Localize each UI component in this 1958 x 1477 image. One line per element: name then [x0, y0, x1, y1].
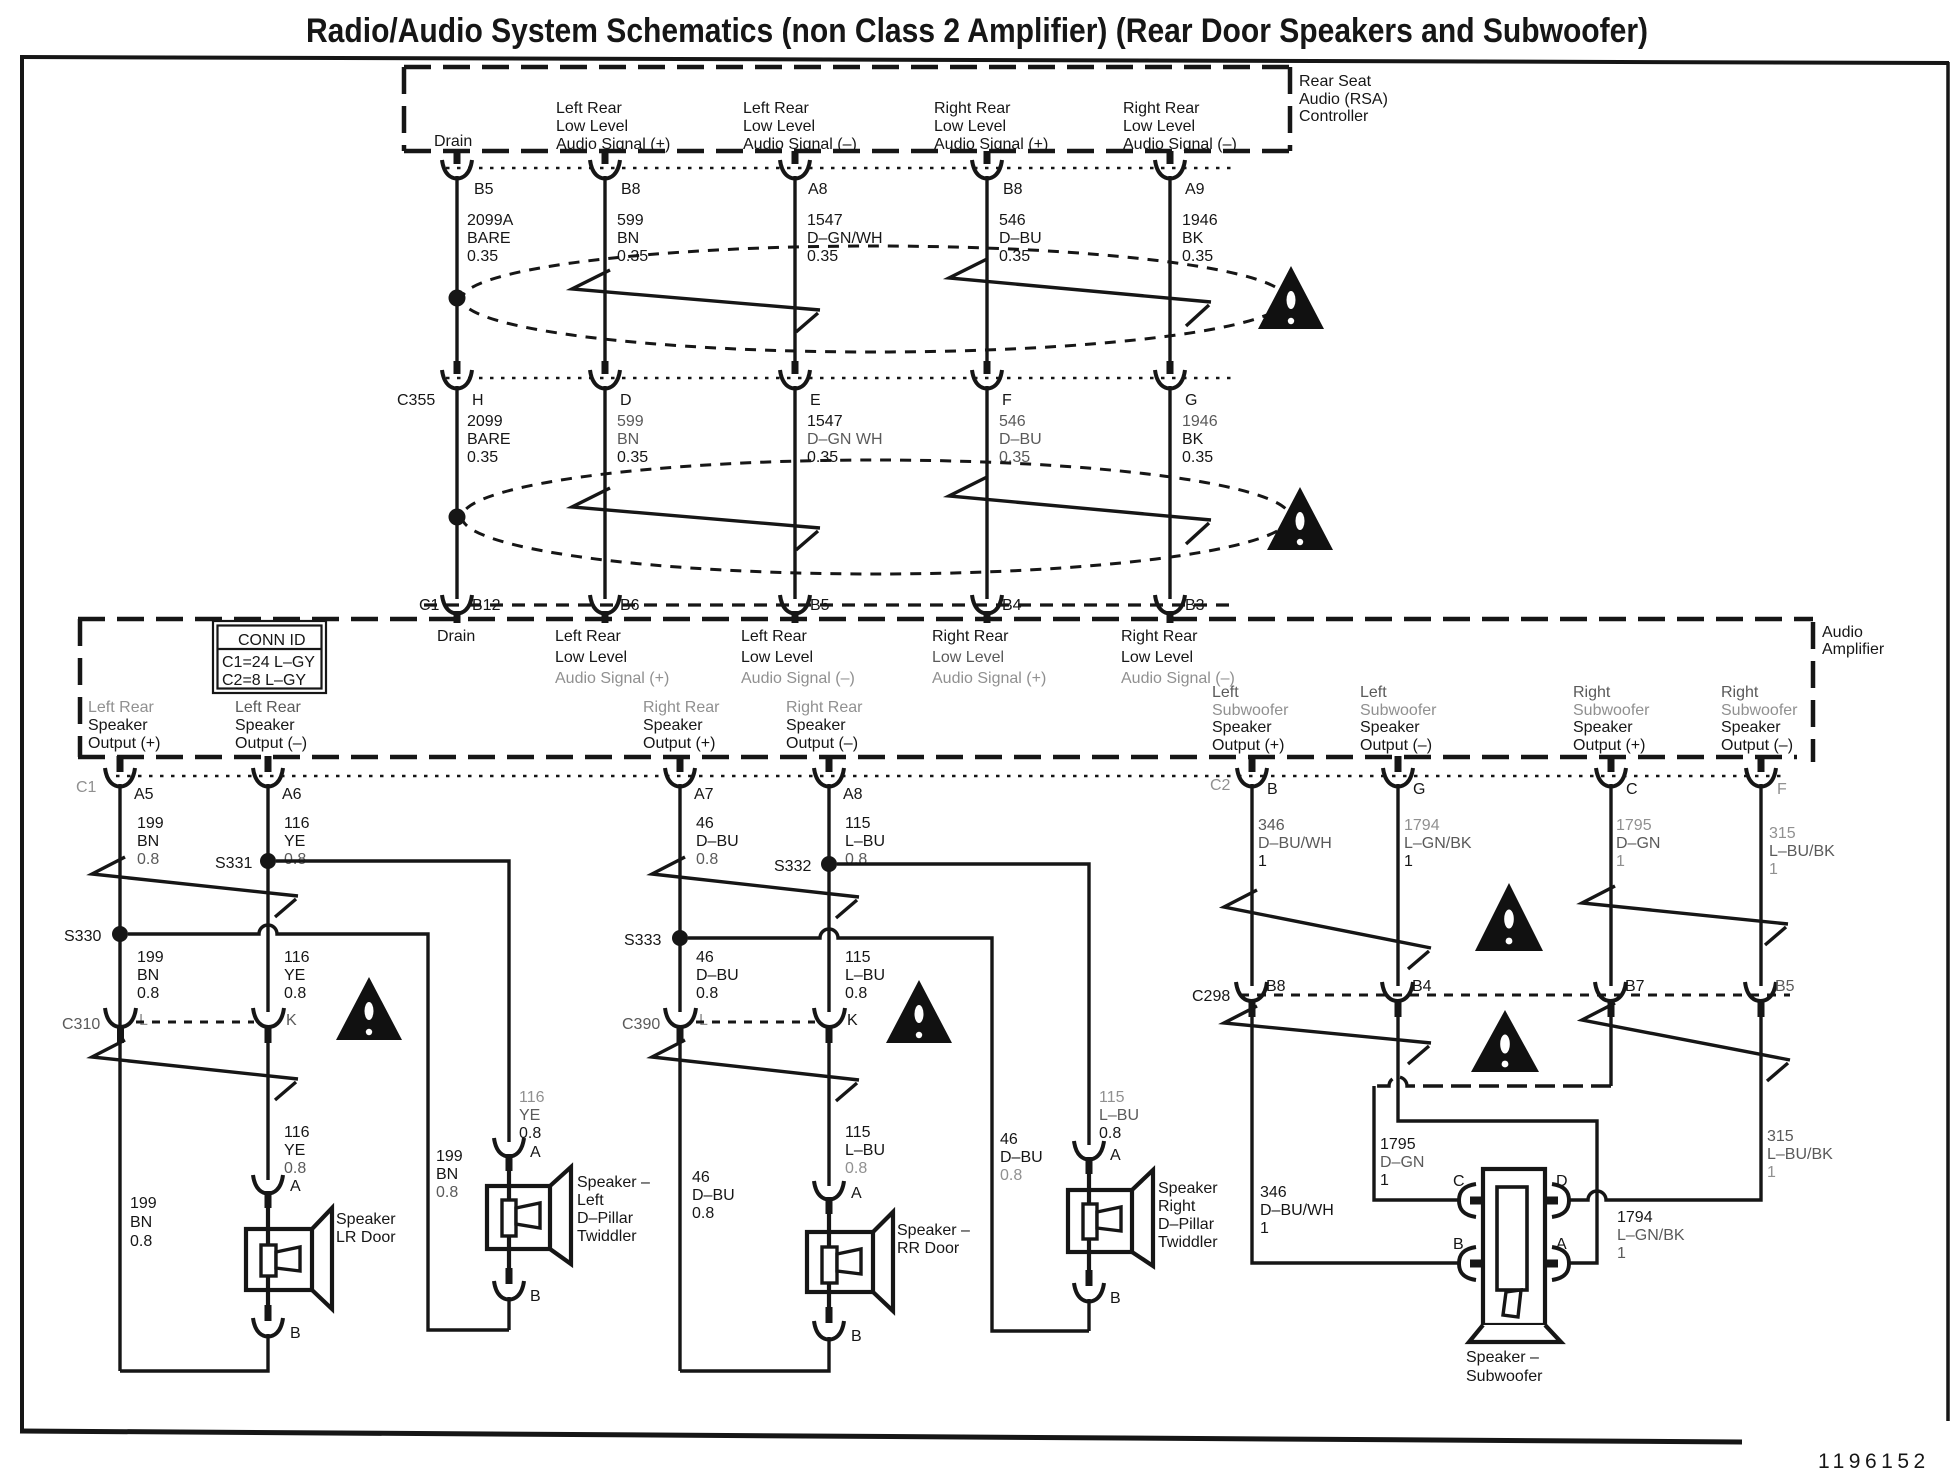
C298 dashed line	[1240, 994, 1790, 997]
speaker Right D-Pillar Twiddler	[1068, 1170, 1153, 1270]
pin A8 (LR-)	[780, 151, 828, 198]
wire label 116 YE 0.8 (twiddler branch)	[519, 1089, 545, 1142]
wire G 1794 down	[1396, 784, 1399, 986]
C1 dashed connector line	[424, 603, 1238, 606]
wire label 346 D-BU/WH 1 (lower)	[1260, 1184, 1334, 1237]
connector row under RSA: dotted connector line	[446, 167, 1238, 170]
speaker RR Door connector B	[814, 1307, 862, 1345]
svg-text:BN: BN	[137, 833, 159, 850]
speaker RR Door label	[897, 1222, 970, 1257]
C355 dotted connector line	[446, 377, 1238, 380]
amp pin label Right Rear Low Level Audio Signal (-)	[1121, 628, 1235, 687]
amp label Left Subwoofer Speaker Output (-)	[1360, 684, 1437, 754]
Audio Amplifier dashed box	[78, 619, 1813, 762]
amp label Left Rear Speaker Output (-)	[235, 699, 307, 752]
svg-text:Output (–): Output (–)	[786, 735, 858, 752]
svg-text:BK: BK	[1182, 230, 1204, 247]
C1/C2 bottom dotted connector line	[105, 775, 1786, 778]
svg-text:Subwoofer: Subwoofer	[1212, 702, 1289, 719]
svg-text:346: 346	[1258, 817, 1285, 834]
wire RR- A9 to C355-G	[1168, 176, 1171, 361]
svg-text:S331: S331	[215, 855, 252, 872]
svg-text:F: F	[1002, 392, 1012, 409]
svg-text:Audio Signal (+): Audio Signal (+)	[555, 670, 669, 687]
amp pin A8	[814, 756, 863, 803]
svg-text:A: A	[1110, 1147, 1121, 1164]
svg-text:1946: 1946	[1182, 413, 1218, 430]
RSA pin label Left Rear Low Level Audio Signal (-)	[743, 100, 857, 153]
svg-text:C298: C298	[1192, 988, 1230, 1005]
svg-text:0.35: 0.35	[467, 449, 498, 466]
svg-text:A8: A8	[808, 181, 828, 198]
svg-text:115: 115	[845, 1124, 871, 1141]
warning triangle 4	[886, 980, 952, 1043]
C390 pin L	[665, 1008, 708, 1043]
subwoofer pin C	[1453, 1173, 1485, 1217]
speaker left twiddler connector A	[494, 1138, 541, 1171]
svg-text:1794: 1794	[1404, 817, 1440, 834]
svg-text:Audio: Audio	[1822, 624, 1863, 641]
svg-text:B5: B5	[474, 181, 494, 198]
svg-text:0.35: 0.35	[467, 248, 498, 265]
svg-text:Speaker: Speaker	[1158, 1180, 1218, 1197]
svg-text:1: 1	[1767, 1164, 1776, 1181]
C1 pin B3	[1155, 595, 1205, 623]
svg-text:Speaker: Speaker	[1212, 719, 1272, 736]
svg-text:199: 199	[130, 1195, 157, 1212]
svg-text:BN: BN	[617, 230, 639, 247]
svg-text:Speaker: Speaker	[235, 717, 295, 734]
wire label 116 YE 0.8 (below S331)	[284, 949, 310, 1002]
amp pin label Right Rear Low Level Audio Signal (+)	[932, 628, 1046, 687]
svg-text:E: E	[810, 392, 821, 409]
svg-text:Controller: Controller	[1299, 108, 1369, 125]
svg-text:546: 546	[999, 212, 1026, 229]
speaker right twiddler connector B	[1074, 1270, 1121, 1307]
twisted-pair arrow mid section lower	[652, 1040, 859, 1101]
twisted-pair arrow lower-right	[949, 477, 1211, 544]
svg-text:599: 599	[617, 212, 644, 229]
svg-text:S332: S332	[774, 858, 811, 875]
wire label 1946 BK 0.35	[1182, 212, 1218, 265]
wire label 599 BN 0.35	[617, 212, 648, 265]
C1 pin B12	[442, 595, 501, 623]
C298 pin B4	[1382, 978, 1432, 1017]
speaker left twiddler connector B	[494, 1268, 541, 1305]
svg-text:599: 599	[617, 413, 644, 430]
svg-text:Subwoofer: Subwoofer	[1573, 702, 1650, 719]
svg-text:Speaker: Speaker	[643, 717, 703, 734]
CONN ID table	[213, 621, 326, 693]
svg-text:115: 115	[845, 815, 871, 832]
svg-text:1196152: 1196152	[1818, 1450, 1930, 1472]
C355 pin G	[1155, 361, 1197, 409]
svg-text:Left: Left	[1212, 684, 1239, 701]
svg-text:1547: 1547	[807, 212, 843, 229]
wire label 116 YE 0.8 (above LR door A)	[284, 1124, 310, 1177]
wire E to C1-B5	[793, 386, 796, 599]
svg-text:46: 46	[696, 815, 714, 832]
svg-text:Low Level: Low Level	[555, 649, 627, 666]
svg-text:546: 546	[999, 413, 1026, 430]
RSA pin label Left Rear Low Level Audio Signal (+)	[556, 100, 670, 153]
amp pin G	[1383, 756, 1425, 798]
svg-text:Left: Left	[1360, 684, 1387, 701]
svg-text:BARE: BARE	[467, 431, 511, 448]
wire label 199 BN 0.8 (below S330)	[137, 949, 164, 1002]
svg-text:Left Rear: Left Rear	[88, 699, 154, 716]
svg-text:199: 199	[137, 815, 164, 832]
wire S331 branch to left twiddler	[276, 861, 509, 1142]
svg-text:Speaker: Speaker	[336, 1211, 396, 1228]
svg-text:C2: C2	[1210, 777, 1231, 794]
svg-text:B: B	[851, 1328, 862, 1345]
wire S330 branch with hop over A6 wire	[128, 925, 509, 1330]
warning triangle 1	[1258, 266, 1324, 329]
svg-text:L–BU: L–BU	[1099, 1107, 1139, 1124]
wire S332 branch to right twiddler	[837, 864, 1089, 1145]
svg-text:Right Rear: Right Rear	[1121, 628, 1198, 645]
C1 pin B4	[972, 595, 1022, 623]
svg-text:L–BU/BK: L–BU/BK	[1769, 843, 1835, 860]
wire LR- A8 to C355-E	[793, 176, 796, 361]
svg-text:F: F	[1777, 781, 1787, 798]
svg-text:Subwoofer: Subwoofer	[1721, 702, 1798, 719]
svg-text:G: G	[1413, 781, 1425, 798]
svg-text:K: K	[847, 1012, 858, 1029]
svg-text:1: 1	[1260, 1220, 1269, 1237]
svg-text:Radio/Audio System Schematics: Radio/Audio System Schematics (non Class…	[306, 12, 1648, 50]
svg-text:0.35: 0.35	[1182, 449, 1213, 466]
wire LR door B loop	[120, 1334, 268, 1371]
svg-text:Amplifier: Amplifier	[1822, 641, 1885, 658]
svg-text:D–Pillar: D–Pillar	[577, 1210, 634, 1227]
svg-text:B: B	[1267, 781, 1278, 798]
amp pin A7	[665, 756, 714, 803]
subwoofer pin A	[1543, 1236, 1569, 1280]
svg-text:C390: C390	[622, 1016, 660, 1033]
amp label Right Rear Speaker Output (-)	[786, 699, 863, 752]
svg-text:B12: B12	[472, 597, 501, 614]
svg-text:1547: 1547	[807, 413, 843, 430]
svg-text:46: 46	[1000, 1131, 1018, 1148]
svg-text:Left: Left	[577, 1192, 604, 1209]
svg-text:Low Level: Low Level	[934, 118, 1006, 135]
wire label 1795 D-GN 1 (lower)	[1380, 1136, 1424, 1189]
svg-text:D–BU/WH: D–BU/WH	[1260, 1202, 1334, 1219]
speaker Subwoofer label	[1466, 1349, 1543, 1385]
amp pin F	[1746, 756, 1787, 798]
svg-text:Speaker: Speaker	[88, 717, 148, 734]
svg-text:C355: C355	[397, 392, 435, 409]
wire label 199 BN 0.8	[137, 815, 164, 868]
wire drain H to C1-B12	[455, 386, 458, 599]
svg-text:LR Door: LR Door	[336, 1229, 396, 1246]
speaker LR Door	[246, 1208, 332, 1309]
pin A9 (RR-)	[1155, 151, 1205, 198]
twisted-pair arrow sub-right lower	[1582, 1003, 1790, 1081]
amp pin B	[1237, 756, 1278, 798]
svg-text:Audio (RSA): Audio (RSA)	[1299, 91, 1388, 108]
speaker left twiddler label	[577, 1174, 650, 1245]
svg-text:Right Rear: Right Rear	[1123, 100, 1200, 117]
twisted-pair arrow sub-left upper	[1224, 890, 1431, 969]
wire A8 115 L-BU down	[827, 784, 830, 1012]
svg-text:315: 315	[1767, 1128, 1794, 1145]
wire G to C1-B3	[1168, 386, 1171, 599]
svg-text:B8: B8	[1003, 181, 1023, 198]
svg-text:B3: B3	[1185, 597, 1205, 614]
wire label 1794 L-GN/BK 1	[1404, 817, 1472, 870]
svg-text:D–BU: D–BU	[999, 230, 1042, 247]
svg-text:115: 115	[1099, 1089, 1125, 1106]
svg-text:Speaker –: Speaker –	[897, 1222, 970, 1239]
svg-text:116: 116	[519, 1089, 545, 1106]
C298 pin B5	[1745, 978, 1795, 1017]
svg-text:L–BU: L–BU	[845, 833, 885, 850]
svg-text:B5: B5	[1775, 978, 1795, 995]
shield ellipse upper	[462, 246, 1286, 352]
svg-text:Output (+): Output (+)	[1212, 737, 1284, 754]
svg-text:46: 46	[696, 949, 714, 966]
wire F to C1-B4	[985, 386, 988, 599]
splice S333	[624, 930, 688, 949]
wire 1794 L-GN/BK to subwoofer A (hop over 1200 run)	[1398, 1017, 1597, 1263]
svg-text:Output (+): Output (+)	[643, 735, 715, 752]
splice S330	[64, 926, 128, 945]
svg-text:B4: B4	[1002, 597, 1022, 614]
wire right twiddler B to loop	[1087, 1299, 1090, 1331]
svg-text:Low Level: Low Level	[1121, 649, 1193, 666]
svg-text:BN: BN	[617, 431, 639, 448]
svg-text:Audio Signal (–): Audio Signal (–)	[1123, 136, 1237, 153]
svg-text:0.8: 0.8	[845, 1160, 867, 1177]
svg-text:46: 46	[692, 1169, 710, 1186]
svg-text:1: 1	[1404, 853, 1413, 870]
wire LR+ B8 to C355-D	[603, 176, 606, 361]
splice dot on drain (shield) lower	[449, 509, 466, 526]
svg-text:C1=24 L–GY: C1=24 L–GY	[222, 654, 315, 671]
svg-text:A: A	[290, 1178, 301, 1195]
RSA controller label	[1299, 73, 1388, 125]
amp pin label Left Rear Low Level Audio Signal (-)	[741, 628, 855, 687]
warning triangle 3	[336, 977, 402, 1040]
wire label 1547 D-GN WH 0.35 (2)	[807, 413, 883, 466]
C355 pin H	[442, 361, 484, 409]
svg-text:Left Rear: Left Rear	[556, 100, 622, 117]
svg-text:Rear Seat: Rear Seat	[1299, 73, 1372, 90]
svg-text:115: 115	[845, 949, 871, 966]
speaker RR Door	[807, 1212, 893, 1311]
amp pin A5	[105, 756, 154, 803]
svg-text:A5: A5	[134, 786, 154, 803]
wire label 2099 BARE 0.35	[467, 413, 511, 466]
wire label 1795 D-GN 1	[1616, 817, 1660, 870]
wire label 115 L-BU 0.8 (below S332)	[845, 949, 885, 1002]
wire label 199 BN 0.8 (S330 branch)	[436, 1148, 463, 1201]
amp label Left Subwoofer Speaker Output (+)	[1212, 684, 1289, 754]
svg-text:B8: B8	[621, 181, 641, 198]
speaker LR Door label	[336, 1211, 396, 1246]
C310 dashed line	[136, 1021, 254, 1024]
wire label 46 D-BU 0.8 (S333 branch)	[1000, 1131, 1043, 1184]
svg-text:H: H	[472, 392, 484, 409]
amp label Right Rear Speaker Output (+)	[643, 699, 720, 752]
svg-text:Right Rear: Right Rear	[786, 699, 863, 716]
splice dot on drain (shield) upper	[449, 290, 466, 307]
amp label Right Subwoofer Speaker Output (+)	[1573, 684, 1650, 754]
svg-text:L–GN/BK: L–GN/BK	[1617, 1227, 1685, 1244]
speaker RR Door connector A	[814, 1181, 862, 1214]
svg-text:Subwoofer: Subwoofer	[1360, 702, 1437, 719]
svg-text:116: 116	[284, 815, 310, 832]
svg-text:B4: B4	[1412, 978, 1432, 995]
svg-text:1: 1	[1616, 853, 1625, 870]
svg-text:YE: YE	[284, 833, 305, 850]
C310 pin L	[105, 1008, 148, 1043]
svg-text:199: 199	[436, 1148, 463, 1165]
C355 pin F	[972, 361, 1012, 409]
C390 dashed line	[696, 1021, 815, 1024]
svg-text:A8: A8	[843, 786, 863, 803]
svg-text:Audio Signal (+): Audio Signal (+)	[934, 136, 1048, 153]
svg-text:346: 346	[1260, 1184, 1287, 1201]
svg-text:Left Rear: Left Rear	[743, 100, 809, 117]
svg-text:0.8: 0.8	[436, 1184, 458, 1201]
C310 pin K	[253, 1008, 297, 1043]
svg-text:K: K	[286, 1012, 297, 1029]
svg-text:Speaker: Speaker	[1573, 719, 1633, 736]
svg-text:S330: S330	[64, 928, 101, 945]
svg-text:Speaker: Speaker	[1360, 719, 1420, 736]
svg-text:BARE: BARE	[467, 230, 511, 247]
svg-text:Drain: Drain	[434, 133, 472, 150]
svg-text:1795: 1795	[1380, 1136, 1416, 1153]
svg-text:Audio Signal (–): Audio Signal (–)	[743, 136, 857, 153]
wire drain B5 to C355-H	[455, 176, 458, 361]
wire label 46 D-BU 0.8 (below S333)	[696, 949, 739, 1002]
svg-text:A: A	[851, 1185, 862, 1202]
wire label 46 D-BU 0.8 (above RR loop)	[692, 1169, 735, 1222]
svg-text:Subwoofer: Subwoofer	[1466, 1368, 1543, 1385]
svg-text:A7: A7	[694, 786, 714, 803]
svg-text:D–BU/WH: D–BU/WH	[1258, 835, 1332, 852]
svg-text:116: 116	[284, 1124, 310, 1141]
C298 pin B8	[1236, 978, 1286, 1017]
wire label 546 D-BU 0.35	[999, 212, 1042, 265]
twisted-pair arrow sub-left lower	[1224, 1006, 1431, 1064]
speaker right twiddler label	[1158, 1180, 1218, 1251]
C1 pin B6	[590, 595, 640, 623]
svg-text:D–GN: D–GN	[1380, 1154, 1424, 1171]
svg-text:0.35: 0.35	[807, 449, 838, 466]
wire D to C1-B6	[603, 386, 606, 599]
svg-text:1: 1	[1380, 1172, 1389, 1189]
svg-text:D–BU: D–BU	[692, 1187, 735, 1204]
subwoofer pin D	[1543, 1173, 1569, 1217]
speaker LR Door connector A	[253, 1175, 301, 1208]
wire RR+ B8 to C355-F	[985, 176, 988, 361]
svg-text:Output (+): Output (+)	[88, 735, 160, 752]
svg-text:D: D	[620, 392, 632, 409]
svg-text:Output (–): Output (–)	[1360, 737, 1432, 754]
svg-text:Right: Right	[1721, 684, 1759, 701]
wire label 115 L-BU 0.8 (right twiddler branch)	[1099, 1089, 1139, 1142]
svg-text:Low Level: Low Level	[932, 649, 1004, 666]
warning triangle 6	[1471, 1010, 1539, 1072]
wire 1795 D-GN to subwoofer C with hop over 1794 wire	[1609, 1017, 1612, 1086]
svg-text:YE: YE	[284, 967, 305, 984]
svg-text:1: 1	[1258, 853, 1267, 870]
wire label 115 L-BU 0.8 (above RR door A)	[845, 1124, 885, 1177]
svg-text:G: G	[1185, 392, 1197, 409]
svg-text:0.35: 0.35	[807, 248, 838, 265]
svg-text:Right Rear: Right Rear	[643, 699, 720, 716]
svg-text:0.8: 0.8	[284, 1160, 306, 1177]
wire RR door B loop	[680, 1337, 829, 1371]
wire label 315 L-BU/BK 1	[1769, 825, 1835, 878]
svg-text:L–BU: L–BU	[845, 1142, 885, 1159]
wire label 346 D-BU/WH 1	[1258, 817, 1332, 870]
svg-text:0.8: 0.8	[1000, 1167, 1022, 1184]
wire label 199 BN 0.8 (above LR loop)	[130, 1195, 157, 1250]
C1 pin B5	[780, 595, 830, 623]
amp pin A6	[253, 756, 302, 803]
wire label 2099A BARE 0.35	[467, 212, 514, 265]
svg-text:Speaker –: Speaker –	[1466, 1349, 1539, 1366]
svg-text:Low Level: Low Level	[743, 118, 815, 135]
svg-text:0.8: 0.8	[692, 1205, 714, 1222]
svg-text:Audio Signal (+): Audio Signal (+)	[556, 136, 670, 153]
svg-text:0.8: 0.8	[845, 985, 867, 1002]
svg-text:BN: BN	[137, 967, 159, 984]
amp pin C	[1596, 756, 1638, 798]
svg-text:Left Rear: Left Rear	[741, 628, 807, 645]
svg-text:1946: 1946	[1182, 212, 1218, 229]
svg-text:BK: BK	[1182, 431, 1204, 448]
svg-text:L–BU: L–BU	[845, 967, 885, 984]
svg-text:0.8: 0.8	[137, 985, 159, 1002]
subwoofer pin B	[1453, 1236, 1485, 1280]
warning triangle 2	[1267, 487, 1333, 550]
Rear Seat Audio (RSA) Controller box	[404, 67, 1290, 151]
wire B 346 down	[1250, 784, 1253, 986]
splice S331	[215, 853, 276, 872]
svg-text:Output (–): Output (–)	[1721, 737, 1793, 754]
wire label 115 L-BU 0.8	[845, 815, 885, 868]
speaker right twiddler connector A	[1074, 1141, 1121, 1174]
wire A7 46 D-BU down	[678, 784, 681, 1012]
svg-text:B: B	[530, 1288, 541, 1305]
wire C 1795 down	[1609, 784, 1612, 986]
wire A6 116 YE down to C310	[266, 784, 269, 1012]
amp pin label Left Rear Low Level Audio Signal (+)	[555, 628, 669, 687]
C298 pin B7	[1595, 978, 1645, 1017]
splice S332	[774, 856, 837, 875]
svg-text:C310: C310	[62, 1016, 100, 1033]
svg-text:C1: C1	[76, 779, 97, 796]
wire 115 L-BU C390 to RR door A	[827, 1043, 830, 1186]
svg-text:D–Pillar: D–Pillar	[1158, 1216, 1215, 1233]
wire 116 YE C310 to LR door A	[266, 1043, 269, 1180]
RSA pin label Right Rear Low Level Audio Signal (+)	[934, 100, 1048, 153]
pin B8 (RR+)	[972, 151, 1023, 198]
amp label Left Rear Speaker Output (+)	[88, 699, 160, 752]
svg-text:Right Rear: Right Rear	[932, 628, 1009, 645]
svg-text:Right Rear: Right Rear	[934, 100, 1011, 117]
wire label 116 YE 0.8	[284, 815, 310, 868]
wire S333 branch with hop over A8 wire	[688, 929, 1089, 1331]
